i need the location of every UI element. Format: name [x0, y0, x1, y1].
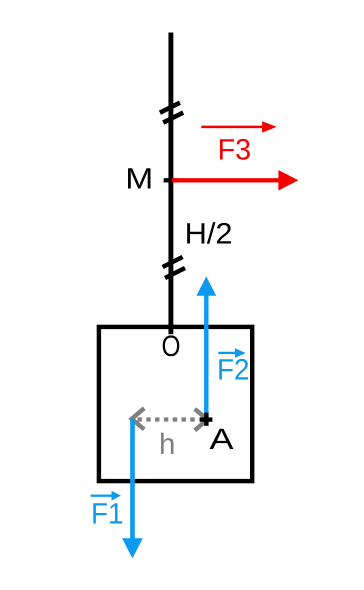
- box (square body): [99, 327, 252, 481]
- vector arrow over F1: [91, 491, 121, 501]
- left chevron arrowhead of h: [132, 408, 145, 429]
- rod (vertical bar): [168, 33, 173, 335]
- right chevron arrowhead of h: [195, 409, 208, 430]
- svg-text:O: O: [162, 330, 181, 363]
- svg-text:H/2: H/2: [185, 218, 233, 251]
- vector arrow over F3: [201, 121, 276, 132]
- break tick 2a on rod: [163, 257, 183, 267]
- svg-text:M: M: [125, 162, 153, 195]
- svg-text:h: h: [159, 428, 175, 461]
- break tick 1b on rod: [163, 113, 183, 123]
- svg-text:F2: F2: [217, 354, 250, 387]
- force F1 arrow (downward): [122, 419, 143, 559]
- svg-text:F1: F1: [91, 498, 124, 531]
- break tick 1a on rod: [160, 103, 180, 113]
- vector arrow over F2: [218, 348, 245, 358]
- svg-text:F3: F3: [218, 134, 252, 167]
- dimension line h (dotted): [138, 417, 201, 421]
- break tick 2b on rod: [165, 268, 185, 278]
- svg-text:A: A: [210, 423, 234, 456]
- force F2 arrow (upward from A): [196, 276, 216, 419]
- force F3 arrow (applied at M): [172, 170, 298, 190]
- point M tick mark: [164, 178, 179, 182]
- point A cross marker: [200, 413, 212, 426]
